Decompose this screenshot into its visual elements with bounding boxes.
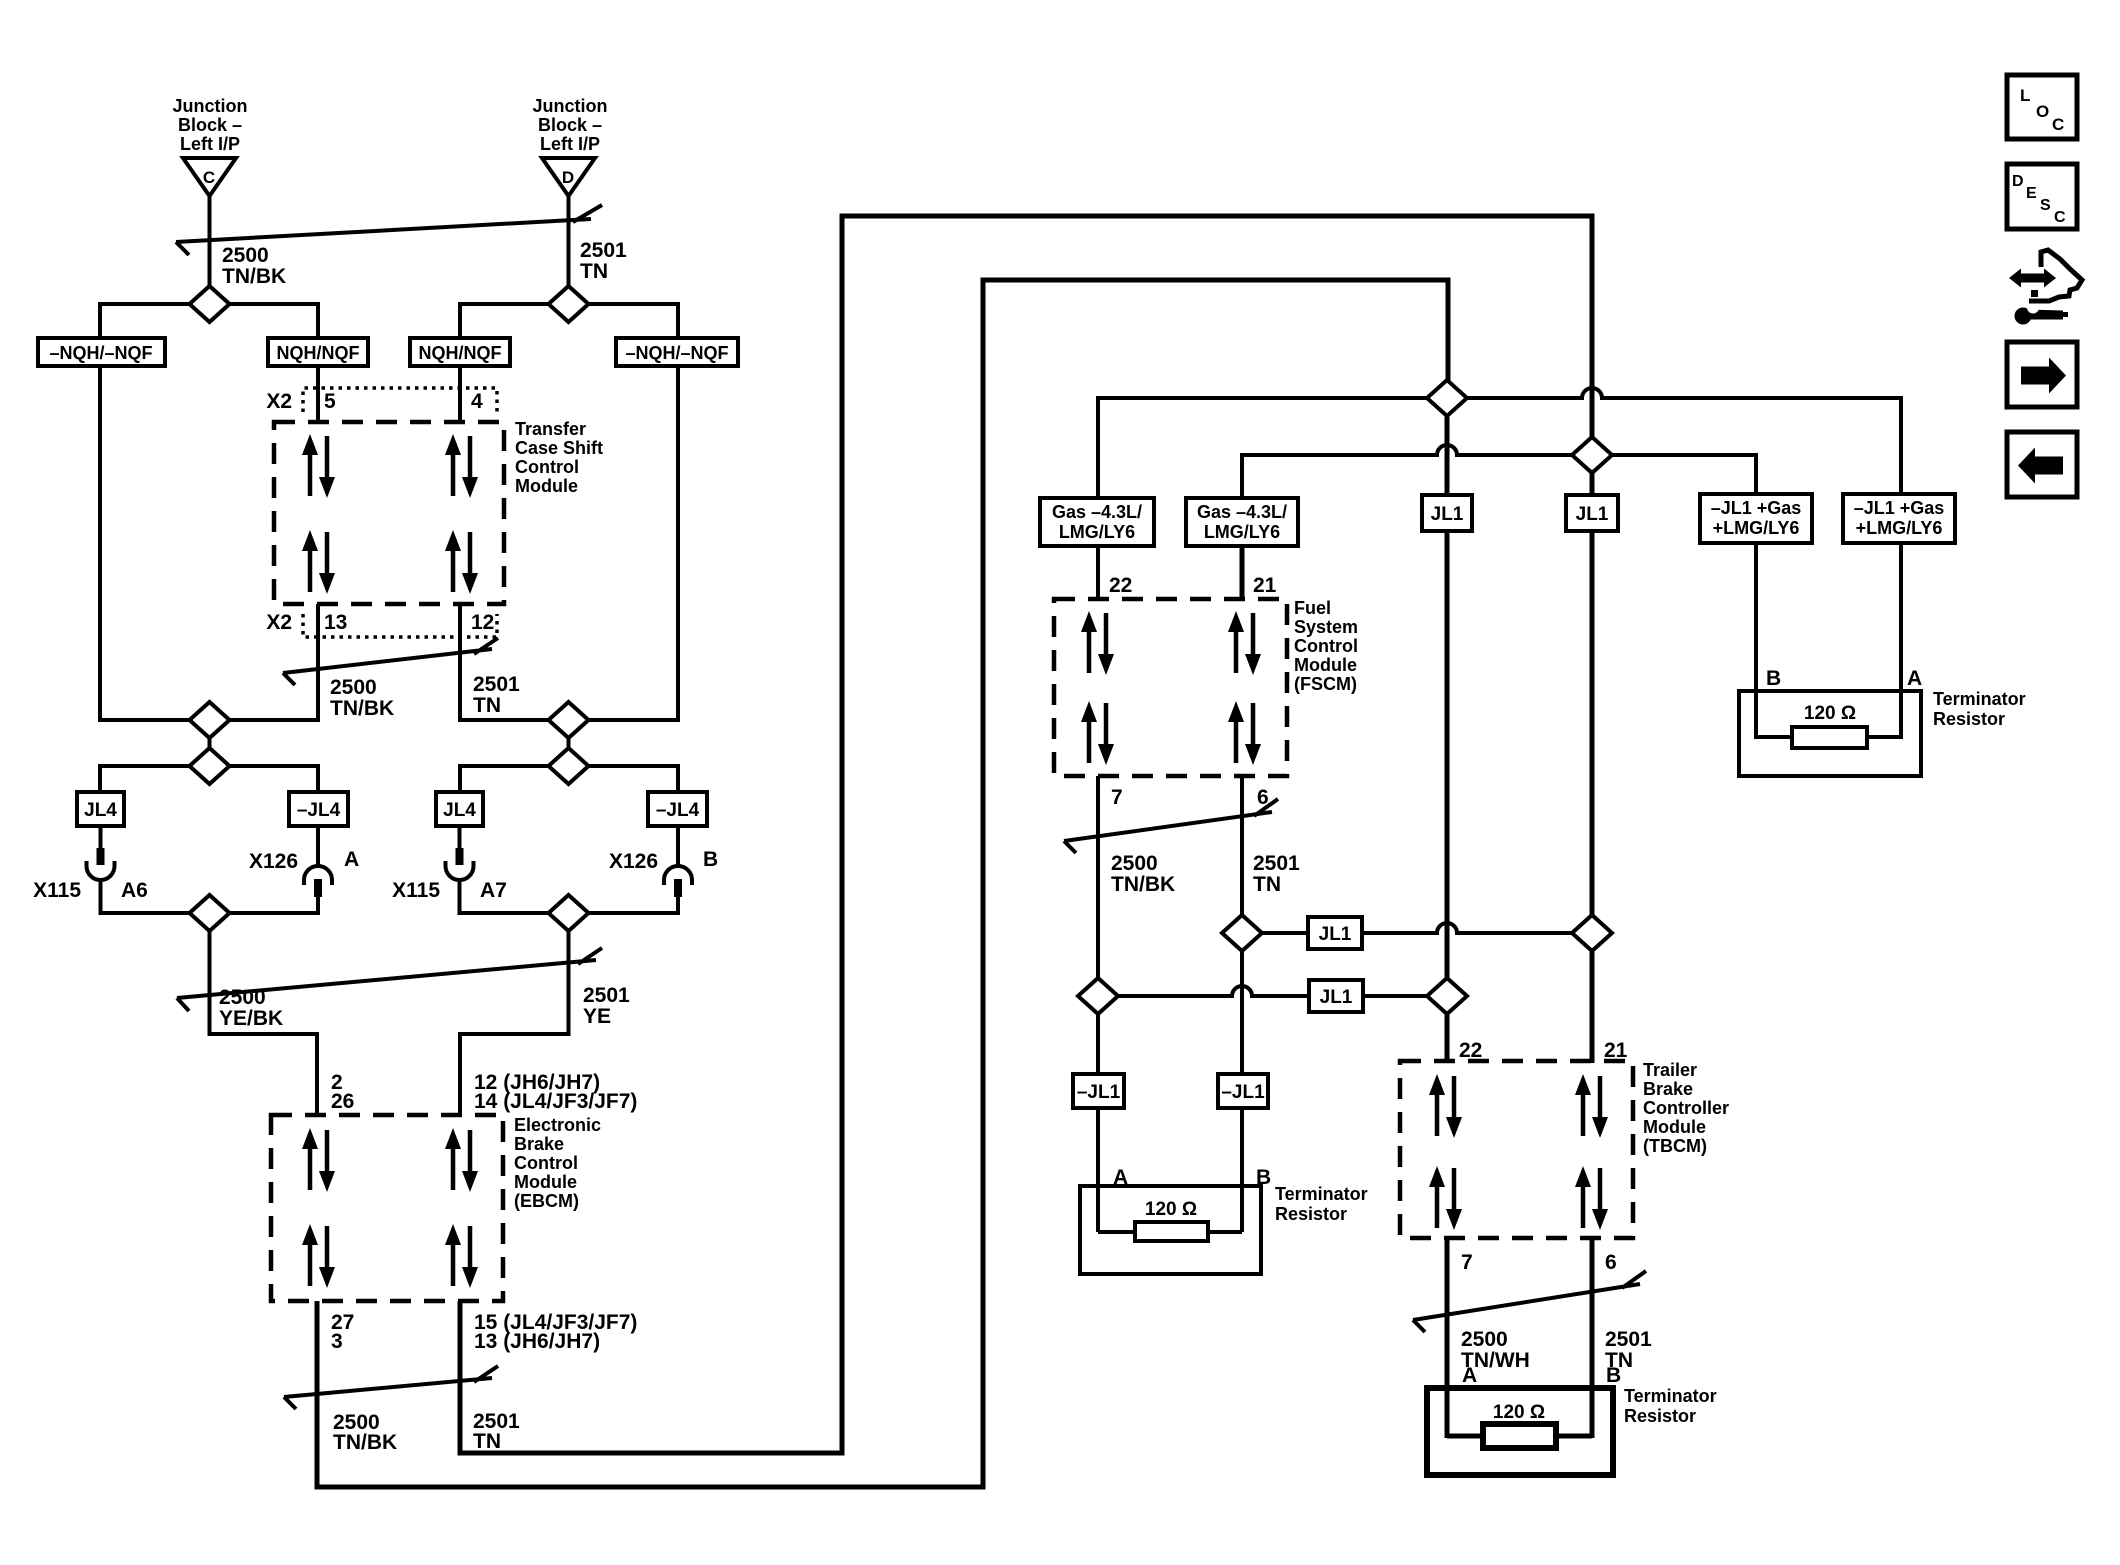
svg-text:JL1: JL1: [1320, 987, 1353, 1008]
junction block C label: [173, 96, 248, 154]
svg-text:Resistor: Resistor: [1275, 1204, 1347, 1224]
svg-text:YE/BK: YE/BK: [219, 1007, 283, 1030]
svg-text:(TBCM): (TBCM): [1643, 1136, 1707, 1156]
EBCM data arrows: [302, 1128, 478, 1288]
slash crossing 6: [1413, 1271, 1646, 1332]
splice diamond R-766: [549, 748, 589, 784]
slash crossing 4: [284, 1366, 498, 1409]
svg-text:2501: 2501: [1605, 1328, 1652, 1351]
fuse box JL1 x1447: [1422, 495, 1472, 531]
connector X2 dotted band bottom: [303, 614, 497, 637]
svg-text:Controller: Controller: [1643, 1098, 1729, 1118]
wire pin to rail R: [676, 895, 680, 915]
svg-text:(FSCM): (FSCM): [1294, 674, 1357, 694]
label wire 2500 TN/BK: [222, 244, 286, 288]
wire Gas1 to pin 22: [1096, 546, 1100, 601]
label Terminator Resistor mid: [1275, 1184, 1368, 1224]
wire -JL4R to socket: [676, 826, 680, 868]
slash crossing 3: [177, 948, 602, 1011]
TCSCM name: [515, 419, 603, 496]
connector box -NQH/-NQF 2: [616, 338, 738, 366]
svg-text:A: A: [1907, 667, 1922, 690]
label wire 2501 YE: [583, 984, 630, 1028]
icon LOC box: [2007, 75, 2077, 139]
splice diamond C1: [190, 286, 230, 322]
svg-text:–JL1: –JL1: [1221, 1082, 1265, 1103]
wire rail to JL4 L: [98, 764, 102, 792]
bus line right y304: [460, 302, 678, 306]
splice diamond x1098-y996: [1078, 978, 1118, 1014]
svg-text:Transfer: Transfer: [515, 419, 586, 439]
svg-text:D: D: [562, 168, 574, 187]
connector pin male X115-A7: [456, 848, 464, 865]
svg-text:2500: 2500: [1111, 852, 1158, 875]
bus line y996 with hop over x1242: [1098, 986, 1448, 996]
svg-text:C: C: [2052, 115, 2064, 134]
svg-text:Terminator: Terminator: [1275, 1184, 1368, 1204]
connector pin male X115-A6: [97, 848, 105, 865]
label wire 2500 TN/BK 4: [1111, 852, 1175, 896]
svg-text:TN: TN: [580, 260, 608, 283]
svg-text:Electronic: Electronic: [514, 1115, 601, 1135]
svg-text:2500: 2500: [219, 986, 266, 1009]
svg-text:22: 22: [1459, 1039, 1482, 1062]
TCSCM data arrows: [302, 434, 478, 594]
fuse box -JL1 2: [1218, 1074, 1268, 1108]
splice diamond x1242-y933: [1222, 915, 1262, 951]
wire rail to JL4 R: [458, 764, 462, 792]
bus rail left y766: [100, 764, 318, 768]
wire pin 12 down: [458, 604, 462, 722]
bus line y933 with hop over x1447: [1242, 923, 1592, 933]
svg-text:B: B: [703, 848, 718, 871]
svg-text:Gas –4.3L/: Gas –4.3L/: [1052, 502, 1142, 522]
svg-text:JL4: JL4: [84, 800, 117, 821]
svg-text:X115: X115: [33, 879, 81, 902]
svg-text:21: 21: [1253, 574, 1277, 597]
fuse box -JL1 1: [1073, 1074, 1124, 1108]
svg-text:Module: Module: [1294, 655, 1357, 675]
svg-text:JL1: JL1: [1319, 924, 1352, 945]
svg-text:Case Shift: Case Shift: [515, 438, 603, 458]
EBCM name: [514, 1115, 601, 1211]
splice diamond x1447-y996: [1427, 978, 1467, 1014]
wire -JL4 to socket: [316, 826, 320, 868]
fuse box JL1 y933: [1308, 917, 1362, 949]
module EBCM dashed box: [271, 1115, 503, 1301]
svg-text:2500: 2500: [330, 676, 377, 699]
svg-text:–JL4: –JL4: [297, 800, 341, 821]
svg-text:12: 12: [471, 611, 494, 634]
svg-text:3: 3: [331, 1330, 343, 1353]
module U1 Transfer Case Shift Control Module dashed box: [274, 422, 504, 604]
wire 2501 TN from pin 6: [1590, 1238, 1595, 1438]
wire socket to rail R: [458, 878, 462, 915]
slash crossing 2: [283, 638, 498, 685]
svg-text:–JL4: –JL4: [656, 800, 700, 821]
wire JL4R to pin: [458, 826, 462, 850]
svg-text:X2: X2: [266, 611, 292, 634]
svg-text:14 (JL4/JF3/JF7): 14 (JL4/JF3/JF7): [474, 1090, 637, 1113]
connector socket X126-B: [664, 866, 692, 885]
wire 2501 YE down to EBCM: [460, 929, 569, 1117]
svg-text:120 Ω: 120 Ω: [1145, 1199, 1197, 1220]
svg-text:7: 7: [1111, 786, 1123, 809]
wire 2500 YE/BK down to EBCM: [210, 929, 318, 1117]
connector socket X115-A6: [87, 861, 115, 880]
svg-text:Block –: Block –: [178, 115, 242, 135]
terminator resistor mid outer box: [1080, 1186, 1261, 1274]
connector socket X126-A: [304, 866, 332, 885]
bus line left y304: [100, 302, 318, 306]
wire -NQH1 down to rail: [98, 366, 102, 722]
label wire 2501 TN 2: [473, 673, 520, 717]
svg-text:TN: TN: [1253, 873, 1281, 896]
svg-text:O: O: [2036, 102, 2049, 121]
svg-text:C: C: [2054, 209, 2066, 226]
wire diamond to -JL1 1: [1096, 1014, 1100, 1074]
svg-text:JL4: JL4: [443, 800, 476, 821]
fuse box -JL4 L: [289, 792, 348, 826]
label wire 2500 TN/BK 3: [333, 1411, 397, 1454]
svg-text:NQH/NQF: NQH/NQF: [277, 343, 360, 363]
svg-text:X126: X126: [249, 850, 298, 873]
svg-text:–JL1: –JL1: [1077, 1082, 1121, 1103]
svg-text:JL1: JL1: [1576, 504, 1609, 525]
svg-text:5: 5: [324, 390, 336, 413]
wire down to NQH/NQF 2: [458, 302, 462, 338]
wire down to -NQH/-NQF: [98, 302, 102, 338]
svg-text:TN/BK: TN/BK: [330, 697, 394, 720]
svg-text:A6: A6: [121, 879, 148, 902]
bus rail left y720: [100, 718, 318, 722]
wire pin 13 down: [316, 604, 320, 722]
svg-text:120 Ω: 120 Ω: [1804, 703, 1856, 724]
splice diamond x1447-y398: [1427, 380, 1467, 416]
TBCM name: [1643, 1060, 1729, 1156]
svg-text:7: 7: [1461, 1251, 1473, 1274]
svg-text:Control: Control: [514, 1153, 578, 1173]
svg-text:4: 4: [471, 390, 483, 413]
connector box Gas -4.3L/LMG/LY6 1: [1040, 498, 1154, 546]
svg-text:26: 26: [331, 1090, 354, 1113]
bus rail left y913: [100, 911, 318, 915]
splice diamond L-913: [190, 895, 230, 931]
label wire 2501 TN 5: [1605, 1328, 1652, 1372]
FSCM data arrows: [1081, 611, 1261, 765]
svg-text:B: B: [1606, 1364, 1621, 1387]
label Terminator Resistor bottom: [1624, 1386, 1717, 1426]
svg-text:L: L: [2020, 86, 2030, 105]
connector box Gas -4.3L/LMG/LY6 2: [1186, 498, 1298, 546]
wire rail to -JL4 L: [316, 764, 320, 792]
svg-text:2501: 2501: [1253, 852, 1300, 875]
svg-text:YE: YE: [583, 1005, 611, 1028]
wire A to terminator: [1899, 543, 1903, 739]
bus rail right y913: [460, 911, 678, 915]
module FSCM dashed box: [1054, 599, 1287, 776]
svg-text:13: 13: [324, 611, 347, 634]
svg-text:2500: 2500: [1461, 1328, 1508, 1351]
svg-text:LMG/LY6: LMG/LY6: [1059, 522, 1135, 542]
fuse box JL4 L: [77, 792, 124, 826]
connector box NQH/NQF 2: [410, 338, 510, 366]
svg-text:D: D: [2012, 173, 2024, 190]
resistor 120 ohm bottom: [1483, 1402, 1556, 1448]
bus rail right y766: [460, 764, 678, 768]
svg-text:TN/BK: TN/BK: [333, 1431, 397, 1454]
svg-text:–JL1 +Gas: –JL1 +Gas: [1711, 498, 1802, 518]
vertical bus x1447: [1445, 398, 1450, 1063]
svg-text:120 Ω: 120 Ω: [1493, 1402, 1545, 1423]
wire from junction C: [208, 196, 212, 288]
connector box -JL1 +Gas +LMG/LY6 2: [1843, 494, 1955, 543]
label wire 2501 TN 3: [473, 1410, 520, 1453]
svg-text:Terminator: Terminator: [1624, 1386, 1717, 1406]
svg-text:22: 22: [1109, 574, 1132, 597]
connector X2 dotted band top: [303, 388, 497, 412]
icon forward arrow box: [2007, 342, 2077, 407]
wire 2500 TN/WH from pin 7: [1445, 1238, 1450, 1438]
svg-text:21: 21: [1604, 1039, 1628, 1062]
svg-text:TN: TN: [473, 694, 501, 717]
svg-text:A: A: [344, 848, 359, 871]
label wire 2501 TN 4: [1253, 852, 1300, 896]
fuse box JL4 R: [436, 792, 483, 826]
wire Gas2 to pin 21: [1240, 546, 1245, 601]
label Terminator Resistor right: [1933, 689, 2026, 729]
svg-text:X126: X126: [609, 850, 658, 873]
svg-text:S: S: [2040, 197, 2051, 214]
svg-text:Resistor: Resistor: [1624, 1406, 1696, 1426]
svg-text:TN/BK: TN/BK: [222, 265, 286, 288]
junction block D label: [533, 96, 608, 154]
wire 2501 TN long run to right bus: [460, 216, 1592, 1453]
wire rail to -JL4 R: [676, 764, 680, 792]
svg-text:TN: TN: [473, 1430, 501, 1453]
wire B to terminator: [1754, 543, 1758, 739]
svg-text:–NQH/–NQF: –NQH/–NQF: [49, 343, 152, 363]
connector pin male X126-B: [674, 879, 682, 897]
wire between splice diamonds R: [567, 722, 571, 764]
svg-text:Module: Module: [515, 476, 578, 496]
wire from junction D: [567, 196, 571, 288]
svg-text:Module: Module: [514, 1172, 577, 1192]
bus rail right y720: [460, 718, 678, 722]
bus line y398 with hop over x1592: [1098, 388, 1901, 500]
splice diamond R-720: [549, 702, 589, 738]
connector box -JL1 +Gas +LMG/LY6 1: [1700, 494, 1812, 543]
svg-text:Block –: Block –: [538, 115, 602, 135]
svg-text:X115: X115: [392, 879, 440, 902]
svg-text:Fuel: Fuel: [1294, 598, 1331, 618]
svg-text:Junction: Junction: [173, 96, 248, 116]
terminator resistor right outer box: [1739, 691, 1921, 776]
slash crossing 1: [176, 205, 602, 255]
wire 2500 TN/BK long run to right bus: [317, 280, 1448, 1487]
svg-text:(EBCM): (EBCM): [514, 1191, 579, 1211]
splice diamond R-913: [549, 895, 589, 931]
svg-text:Module: Module: [1643, 1117, 1706, 1137]
wire -NQH2 down to rail: [676, 366, 680, 722]
wire NQH2 to pin 4: [458, 366, 462, 424]
wire stubs to resistor: [1756, 735, 1901, 739]
svg-text:Resistor: Resistor: [1933, 709, 2005, 729]
wire between splice diamonds L: [208, 722, 212, 764]
label wire 2501 TN: [580, 239, 627, 283]
svg-text:2501: 2501: [580, 239, 627, 262]
svg-text:LMG/LY6: LMG/LY6: [1204, 522, 1280, 542]
svg-text:E: E: [2026, 185, 2037, 202]
label wire 2500 YE/BK: [219, 986, 283, 1030]
svg-text:C: C: [203, 168, 215, 187]
svg-text:X2: X2: [266, 390, 292, 413]
splice diamond L-766: [190, 748, 230, 784]
svg-text:NQH/NQF: NQH/NQF: [419, 343, 502, 363]
svg-text:+LMG/LY6: +LMG/LY6: [1856, 518, 1943, 538]
wire down to NQH/NQF: [316, 302, 320, 338]
svg-text:Brake: Brake: [514, 1134, 564, 1154]
svg-text:–NQH/–NQF: –NQH/–NQF: [625, 343, 728, 363]
fuse box JL1 x1592: [1566, 495, 1618, 531]
bus line y455 with hop over x1447: [1242, 445, 1756, 500]
splice diamond x1592-y455: [1572, 437, 1612, 473]
svg-text:Junction: Junction: [533, 96, 608, 116]
module TBCM dashed box: [1400, 1061, 1633, 1238]
connector pin male X126-A: [314, 879, 322, 897]
label wire 2500 TN/WH: [1461, 1328, 1530, 1372]
svg-text:TN/BK: TN/BK: [1111, 873, 1175, 896]
connector box NQH/NQF 1: [268, 338, 368, 366]
svg-text:JL1: JL1: [1431, 504, 1464, 525]
svg-text:6: 6: [1605, 1251, 1617, 1274]
icon DESC box: [2007, 164, 2077, 229]
svg-text:System: System: [1294, 617, 1358, 637]
svg-text:Left I/P: Left I/P: [180, 134, 240, 154]
svg-text:A: A: [1462, 1364, 1477, 1387]
resistor 120 ohm right: [1792, 703, 1867, 748]
fuse box -JL4 R: [648, 792, 707, 826]
splice diamond x1592-y933: [1572, 915, 1612, 951]
svg-text:13 (JH6/JH7): 13 (JH6/JH7): [474, 1330, 600, 1353]
splice diamond L-720: [190, 702, 230, 738]
connector box -NQH/-NQF 1: [38, 338, 165, 366]
FSCM name: [1294, 598, 1358, 694]
wire stubs to resistor mid: [1098, 1230, 1242, 1234]
label wire 2500 TN/BK 2: [330, 676, 394, 720]
wire 2501 from pin 6: [1240, 776, 1244, 1074]
svg-text:+LMG/LY6: +LMG/LY6: [1713, 518, 1800, 538]
svg-text:Terminator: Terminator: [1933, 689, 2026, 709]
svg-text:2500: 2500: [222, 244, 269, 267]
svg-text:A7: A7: [480, 879, 507, 902]
wire stubs to resistor bottom: [1447, 1434, 1592, 1439]
wire 2500 from pin 7: [1096, 776, 1100, 980]
svg-text:Brake: Brake: [1643, 1079, 1693, 1099]
wire pin to rail: [316, 895, 320, 915]
icon back arrow box: [2007, 432, 2077, 497]
svg-text:Gas –4.3L/: Gas –4.3L/: [1197, 502, 1287, 522]
svg-text:Left I/P: Left I/P: [540, 134, 600, 154]
wire down to -NQH/-NQF 2: [676, 302, 680, 338]
TBCM data arrows: [1429, 1074, 1608, 1230]
junction block C triangle: [183, 158, 236, 196]
svg-text:2501: 2501: [583, 984, 630, 1007]
icon service info (double arrow, outline, wrench): [2009, 250, 2082, 325]
fuse box JL1 y996: [1309, 980, 1363, 1012]
vertical bus x1592 lower: [1590, 531, 1595, 1063]
wire -JL1 2 to terminator: [1240, 1108, 1244, 1232]
terminator resistor bottom outer box: [1427, 1388, 1613, 1475]
svg-text:B: B: [1766, 667, 1781, 690]
wire JL4 to pin: [99, 826, 103, 850]
resistor 120 ohm mid: [1135, 1199, 1208, 1241]
svg-text:Control: Control: [515, 457, 579, 477]
slash crossing 5: [1064, 799, 1278, 853]
wire -JL1 1 to terminator: [1096, 1108, 1100, 1232]
svg-text:Control: Control: [1294, 636, 1358, 656]
svg-text:2501: 2501: [473, 673, 520, 696]
wire socket to rail: [99, 878, 103, 915]
splice diamond D1: [549, 286, 589, 322]
wire NQH1 to pin 5: [316, 366, 320, 424]
svg-text:Trailer: Trailer: [1643, 1060, 1697, 1080]
svg-text:–JL1 +Gas: –JL1 +Gas: [1854, 498, 1945, 518]
junction block D triangle: [542, 158, 595, 196]
connector socket X115-A7: [446, 861, 474, 880]
